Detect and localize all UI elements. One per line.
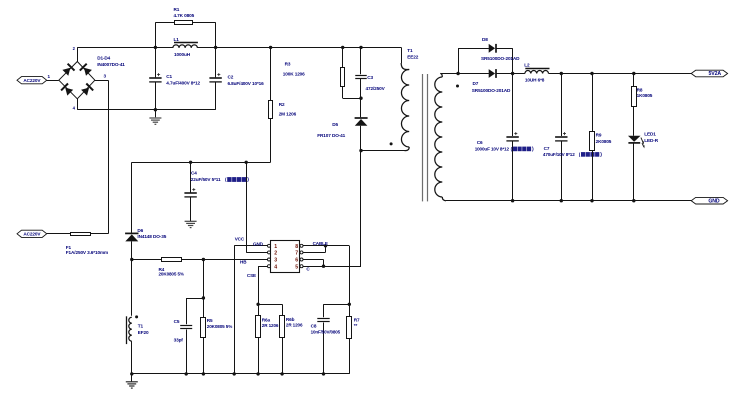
svg-text:**: **: [354, 323, 358, 328]
svg-text:IN4007DO-41: IN4007DO-41: [97, 62, 125, 67]
svg-text:LED-R: LED-R: [644, 138, 658, 143]
svg-text:1K0805: 1K0805: [637, 93, 653, 98]
svg-text:5: 5: [295, 264, 298, 270]
svg-text:4.7K 0805: 4.7K 0805: [174, 13, 195, 18]
svg-text:FR107 DO-41: FR107 DO-41: [317, 133, 345, 138]
svg-text:C7: C7: [544, 146, 550, 151]
svg-text:1000uH: 1000uH: [174, 52, 191, 57]
svg-text:D7: D7: [473, 81, 479, 86]
svg-text:C3: C3: [367, 75, 373, 80]
svg-text:L1: L1: [174, 37, 180, 42]
svg-text:5V2A: 5V2A: [709, 71, 722, 77]
svg-text:LED1: LED1: [644, 132, 656, 137]
svg-text:R9: R9: [596, 132, 602, 137]
svg-text:T1: T1: [407, 48, 413, 53]
svg-text:20K0805 5%: 20K0805 5%: [207, 324, 232, 329]
svg-text:33pf: 33pf: [174, 338, 184, 343]
svg-text:CSE: CSE: [247, 273, 256, 278]
svg-text:2R 1206: 2R 1206: [286, 323, 303, 328]
svg-text:C6: C6: [477, 140, 483, 145]
svg-text:IN4148 DO-35: IN4148 DO-35: [137, 234, 166, 239]
svg-text:C1: C1: [166, 74, 172, 79]
svg-text:GND: GND: [708, 198, 720, 204]
svg-text:T1: T1: [138, 324, 144, 329]
svg-text:2: 2: [274, 251, 277, 257]
svg-text:1: 1: [274, 244, 277, 250]
svg-text:C4: C4: [191, 170, 197, 175]
svg-text:F1A/250V 3.6*10mm: F1A/250V 3.6*10mm: [66, 250, 108, 255]
svg-text:R3: R3: [285, 61, 291, 66]
svg-text:R8: R8: [637, 87, 643, 92]
svg-text:C8: C8: [311, 324, 317, 329]
svg-text:R5: R5: [207, 318, 213, 323]
svg-text:D1-D4: D1-D4: [97, 56, 110, 61]
svg-text:GND: GND: [253, 242, 264, 247]
svg-text:C2: C2: [228, 75, 234, 80]
svg-text:D5: D5: [332, 122, 338, 127]
svg-text:100K 1206: 100K 1206: [283, 71, 305, 76]
svg-text:EF20: EF20: [138, 330, 149, 335]
svg-text:D6: D6: [137, 228, 143, 233]
svg-text:2M 1206: 2M 1206: [279, 111, 297, 116]
svg-text:22uF/50V 5*11: 22uF/50V 5*11: [191, 177, 221, 182]
svg-text:8: 8: [295, 244, 298, 250]
svg-text:20K0805 5%: 20K0805 5%: [159, 272, 184, 277]
svg-text:4: 4: [274, 264, 277, 270]
svg-text:2K0805: 2K0805: [596, 139, 612, 144]
svg-text:10nF/50V/0805: 10nF/50V/0805: [311, 330, 341, 335]
svg-text:R2: R2: [279, 102, 285, 107]
svg-text:R1: R1: [174, 7, 180, 12]
svg-text:2R 1206: 2R 1206: [262, 323, 279, 328]
svg-text:SR5100DO-201AD: SR5100DO-201AD: [472, 88, 511, 93]
svg-text:472/250V: 472/250V: [366, 86, 386, 91]
svg-text:AC220V: AC220V: [23, 232, 41, 237]
svg-text:R7: R7: [354, 317, 360, 322]
svg-text:HB: HB: [240, 260, 247, 265]
svg-text:C5: C5: [174, 319, 180, 324]
svg-text:7: 7: [295, 251, 298, 257]
svg-text:EE22: EE22: [407, 55, 419, 60]
svg-text:R6b: R6b: [286, 317, 295, 322]
svg-text:CABLE: CABLE: [313, 241, 328, 246]
svg-text:4.7uF/400V 8*12: 4.7uF/400V 8*12: [166, 80, 200, 85]
svg-text:D8: D8: [482, 37, 488, 42]
svg-text:6.8uF/400V 10*16: 6.8uF/400V 10*16: [228, 81, 265, 86]
svg-text:R6a: R6a: [262, 317, 271, 322]
svg-text:VCC: VCC: [235, 236, 245, 241]
svg-text:L2: L2: [524, 63, 530, 68]
svg-text:10UH 6*8: 10UH 6*8: [525, 77, 545, 82]
svg-text:6: 6: [295, 258, 298, 264]
svg-text:SR5100DO-201AD: SR5100DO-201AD: [481, 56, 520, 61]
svg-text:AC220V: AC220V: [23, 78, 41, 83]
svg-text:1000uF 10V 8*12: 1000uF 10V 8*12: [475, 147, 510, 152]
svg-text:470uF/10V 8*12: 470uF/10V 8*12: [543, 152, 575, 157]
svg-text:3: 3: [274, 258, 277, 264]
